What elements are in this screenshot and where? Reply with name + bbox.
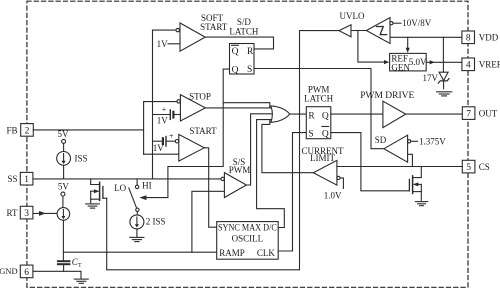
svg-text:SYNC MAX D/C: SYNC MAX D/C xyxy=(218,222,277,232)
svg-text:8: 8 xyxy=(466,34,471,44)
wire CS net xyxy=(337,166,462,168)
svg-text:LATCH: LATCH xyxy=(229,26,259,36)
wire S/S PWM output to OR gate xyxy=(246,114,274,185)
transistor M1 soft start discharge MOSFET xyxy=(91,179,107,203)
svg-text:10V/8V: 10V/8V xyxy=(402,18,432,28)
wire PWM latch Q to PWM drive xyxy=(331,113,383,115)
svg-text:T: T xyxy=(78,263,82,269)
wire PWM latch Qbar to CS MOSFET gate xyxy=(331,133,410,191)
value label 1.0V xyxy=(324,178,344,201)
pin 3 RT xyxy=(7,206,33,219)
pin 4 VREF xyxy=(462,58,500,71)
wire FB to START - input xyxy=(144,153,179,155)
svg-text:1V: 1V xyxy=(153,143,165,153)
comparator CURRENT LIMIT xyxy=(301,146,344,185)
wire VDD to REF GEN xyxy=(407,37,409,48)
svg-text:7: 7 xyxy=(466,110,471,120)
wire STOP output to OR gate xyxy=(205,107,274,109)
svg-text:VREF: VREF xyxy=(479,60,500,70)
ground (GND pin) xyxy=(74,279,88,283)
svg-text:FB: FB xyxy=(6,125,17,135)
svg-text:Q: Q xyxy=(322,111,329,121)
wire GND net xyxy=(33,271,81,278)
ground (2 ISS) xyxy=(130,237,144,241)
pin 1 SS xyxy=(7,172,32,185)
comparator STOP xyxy=(177,92,211,122)
OR gate xyxy=(271,106,290,122)
wire SS net horizontal xyxy=(33,178,221,180)
svg-text:LIMIT: LIMIT xyxy=(310,153,335,163)
comparator START xyxy=(175,126,217,161)
current source 2 ISS with LO/HI switch xyxy=(114,179,165,237)
svg-text:1.0V: 1.0V xyxy=(324,191,342,201)
svg-text:STOP: STOP xyxy=(189,92,211,102)
svg-text:+: + xyxy=(162,105,167,114)
svg-text:RAMP: RAMP xyxy=(219,248,245,258)
wire FB bus vertical xyxy=(143,102,145,155)
svg-text:Q: Q xyxy=(232,47,239,57)
buffer UVLO inverter xyxy=(339,25,366,37)
wire SD lower input from CS xyxy=(408,154,413,166)
wire Q branch to OR gate xyxy=(223,103,270,108)
svg-text:PWM: PWM xyxy=(229,165,251,175)
svg-text:6: 6 xyxy=(24,268,29,278)
svg-text:1: 1 xyxy=(24,175,29,185)
ground (M1 source) xyxy=(86,204,100,208)
svg-text:Q: Q xyxy=(322,130,329,140)
svg-text:OSCILL: OSCILL xyxy=(232,233,264,243)
wire SOFT START output to S/D latch R xyxy=(205,37,273,49)
svg-text:Q: Q xyxy=(232,65,239,75)
wire REF GEN output to VREF xyxy=(426,61,462,63)
svg-text:RT: RT xyxy=(7,208,18,218)
svg-text:SS: SS xyxy=(7,174,17,184)
switch control arrowhead xyxy=(139,195,146,200)
wire PWM drive output to OUT pin xyxy=(406,113,463,115)
svg-text:R: R xyxy=(308,111,315,121)
svg-text:LO: LO xyxy=(114,183,126,193)
S/D latch U-SD xyxy=(229,17,259,75)
svg-text:5V: 5V xyxy=(58,129,70,139)
svg-text:5.0V: 5.0V xyxy=(409,57,427,67)
ground (M2 source) xyxy=(415,202,427,206)
svg-text:S: S xyxy=(308,130,313,140)
current source RT oscillator charge xyxy=(33,182,70,261)
svg-text:GND: GND xyxy=(0,266,18,276)
wire oscillator max D/C to OR gate xyxy=(257,120,285,228)
zener diode 17V clamp xyxy=(423,37,450,89)
svg-text:GEN: GEN xyxy=(391,62,410,72)
wire VDD net xyxy=(390,36,462,38)
svg-text:ISS: ISS xyxy=(75,154,88,164)
transistor M2 CS discharge MOSFET xyxy=(409,167,421,201)
svg-text:5: 5 xyxy=(466,163,471,173)
value label 1.375V xyxy=(411,136,446,146)
wire SS bus to SOFT START input xyxy=(153,29,177,31)
wire S/D latch S input from SD comparator xyxy=(254,69,384,149)
value label 1V (soft start) xyxy=(157,39,180,49)
ground (zener) xyxy=(437,92,452,96)
wire FB to STOP + input xyxy=(144,101,177,103)
svg-text:1V: 1V xyxy=(157,39,169,49)
wire RAMP net xyxy=(63,251,216,253)
svg-text:OUT: OUT xyxy=(479,109,498,119)
wire OR output to PWM latch R xyxy=(290,113,307,115)
svg-text:5V: 5V xyxy=(58,182,70,192)
svg-text:3: 3 xyxy=(24,209,29,219)
pin 5 CS xyxy=(462,160,490,173)
svg-text:PWM DRIVE: PWM DRIVE xyxy=(360,91,414,101)
PWM latch xyxy=(304,84,334,139)
pin 7 OUT xyxy=(462,107,497,120)
wire FB net xyxy=(33,129,143,131)
svg-text:UVLO: UVLO xyxy=(340,11,365,21)
oscillator block xyxy=(217,222,279,260)
comparator SD shutdown xyxy=(375,135,411,162)
wire SS bus to START battery xyxy=(153,140,162,142)
block REF GEN xyxy=(390,53,427,72)
wire UVLO sense to REF GEN input xyxy=(358,31,385,63)
wire RAMP to S/S PWM input xyxy=(192,191,225,252)
svg-text:S: S xyxy=(247,65,252,75)
value label 10V/8V xyxy=(393,18,432,28)
wire UVLO to M1 gate xyxy=(107,31,339,270)
svg-text:+: + xyxy=(169,131,174,140)
svg-text:SD: SD xyxy=(375,135,387,145)
comparator S/S PWM xyxy=(221,157,250,198)
pin 2 FB xyxy=(6,124,33,137)
svg-text:CLK: CLK xyxy=(257,248,276,258)
current source ISS xyxy=(57,129,88,179)
comparator SOFT START xyxy=(176,13,228,51)
wire S/D latch Q output xyxy=(146,69,230,198)
svg-text:LATCH: LATCH xyxy=(304,94,334,104)
svg-text:VDD: VDD xyxy=(479,33,499,43)
pin 8 VDD xyxy=(462,31,499,44)
svg-text:2: 2 xyxy=(25,126,30,136)
svg-text:1V: 1V xyxy=(157,116,169,126)
svg-text:START: START xyxy=(200,22,228,32)
wire START output to oscillator SYNC xyxy=(204,148,217,227)
buffer PWM DRIVE xyxy=(360,91,414,128)
svg-text:4: 4 xyxy=(466,61,471,71)
wire CLK to PWM latch S xyxy=(278,133,306,251)
svg-text:CS: CS xyxy=(479,162,490,172)
comparator UVLO xyxy=(340,11,394,43)
wire SS bus to STOP battery xyxy=(153,114,170,116)
pin 6 GND xyxy=(0,265,33,278)
svg-text:START: START xyxy=(189,126,217,136)
wire current limit to OR gate xyxy=(262,120,313,173)
svg-text:2 ISS: 2 ISS xyxy=(146,216,166,226)
svg-text:1.375V: 1.375V xyxy=(419,136,446,146)
svg-text:HI: HI xyxy=(142,181,152,191)
svg-text:17V: 17V xyxy=(423,73,439,83)
battery 1V (STOP) xyxy=(157,105,181,126)
wire SS sense bus vertical xyxy=(152,30,154,179)
battery 1V (START) xyxy=(153,131,176,153)
svg-text:R: R xyxy=(247,47,254,57)
capacitor CT xyxy=(58,257,82,271)
